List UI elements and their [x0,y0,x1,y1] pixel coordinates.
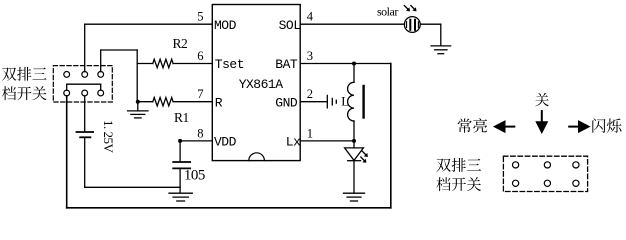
ground below LED [344,192,365,194]
ground below solar cell [431,45,451,47]
svg-text:VDD: VDD [214,135,237,150]
svg-text:7: 7 [197,87,203,101]
svg-text:105: 105 [184,167,205,183]
capacitor C1 105 [173,141,190,193]
ground (rotated) at GND pin2 [327,95,336,108]
svg-text:3: 3 [307,49,313,63]
battery BT1 1.25V [77,132,94,137]
resistor R2 [137,59,212,67]
wire switch top-right up and over to R network [101,50,138,102]
wire Lx pin1 [300,140,354,142]
svg-text:SOL: SOL [279,18,301,33]
LED emission arrows [362,151,368,157]
legend down arrow [535,111,548,134]
ground below R1 junction [128,102,148,118]
node junction BAT/inductor [352,62,356,66]
legend switch label 双排三档开关 [436,158,481,191]
light arrows into solar cell [404,6,410,12]
svg-text:1. 25V: 1. 25V [101,120,116,154]
svg-text:5: 5 [197,10,203,24]
node junction VDD/C1 [178,139,182,143]
svg-text:YX861A: YX861A [239,77,284,92]
svg-text:L: L [341,93,349,108]
solar cell PV1 [404,17,420,33]
double-row 3-position switch S1 (dashed box) [53,66,112,102]
svg-text:R1: R1 [174,110,189,125]
svg-text:2: 2 [307,87,313,101]
svg-text:8: 8 [197,126,203,140]
legend 关 (off) [535,93,549,106]
svg-text:6: 6 [197,49,203,63]
svg-text:R: R [215,95,223,110]
wire switch bottom-left to BAT (bottom loop) [67,64,391,208]
svg-text:R2: R2 [173,36,188,51]
LED D1 [345,141,364,193]
wire switch bottom-middle to battery + [84,96,86,131]
wire SOL pin4 to solar cell [300,23,404,25]
legend switch dashed box [503,156,587,191]
wire battery - to capacitor ground node [85,138,181,187]
wire MOD pin5 to switch top-middle [85,24,213,71]
legend left arrow [493,120,514,133]
legend switch contacts (6 circles) [513,162,580,187]
IC U1 YX861A body [212,5,301,161]
ground below capacitor [169,192,192,194]
wire VDD pin8 [180,140,212,142]
legend 闪烁 (flashing) [592,118,621,132]
node junction Lx/LED [352,139,356,143]
inductor L1 [348,64,364,141]
switch label 双排三档开关 [2,67,47,100]
svg-text:BAT: BAT [275,57,298,72]
node junction R1/ground [136,100,140,104]
switch bridge wire bottom-left to bottom-right [67,84,101,90]
switch contacts (6 circles) [64,72,104,96]
svg-text:GND: GND [275,95,298,110]
svg-text:Lx: Lx [286,135,301,150]
svg-text:solar: solar [377,4,398,18]
wire GND pin2 to chassis [300,101,327,103]
svg-text:MOD: MOD [214,18,237,33]
wire solar cell to ground [420,24,441,46]
wire BAT pin3 across to right rail [300,63,391,65]
legend 常亮 (steady on) [458,118,488,132]
legend right arrow [569,120,590,133]
svg-text:Tset: Tset [215,57,244,72]
resistor R1 [138,98,213,106]
svg-text:1: 1 [307,126,313,140]
